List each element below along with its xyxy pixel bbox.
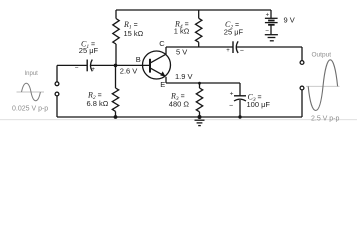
resistor R1 xyxy=(113,10,119,65)
wire collector rail xyxy=(166,46,233,48)
battery B1 9V xyxy=(270,10,272,18)
svg-text:9 V: 9 V xyxy=(284,16,295,25)
svg-text:100 μF: 100 μF xyxy=(247,100,271,109)
svg-text:C: C xyxy=(159,39,165,48)
svg-text:1 kΩ: 1 kΩ xyxy=(174,27,190,36)
svg-text:15 kΩ: 15 kΩ xyxy=(124,29,144,38)
svg-text:E: E xyxy=(160,80,165,89)
capacitor C3 xyxy=(239,83,241,96)
wire input bottom to rail xyxy=(56,96,58,117)
svg-text:25 μF: 25 μF xyxy=(224,27,244,36)
resistor R2 xyxy=(112,65,118,117)
wire emitter rail xyxy=(166,82,240,84)
capacitor C2 xyxy=(233,41,238,53)
node C3 ground dot xyxy=(238,115,241,118)
node R2 ground dot xyxy=(114,115,118,119)
svg-text:−: − xyxy=(240,48,244,55)
faint page rule xyxy=(0,119,357,121)
input sine wave xyxy=(22,83,41,100)
svg-text:2.5 V p-p: 2.5 V p-p xyxy=(311,116,340,123)
output sine axis xyxy=(306,85,340,87)
wire top rail xyxy=(116,9,271,11)
svg-text:−: − xyxy=(75,64,79,71)
svg-text:+: + xyxy=(91,67,95,73)
node R3 ground dot xyxy=(198,115,202,119)
svg-text:Output: Output xyxy=(312,52,332,59)
svg-text:+: + xyxy=(266,13,270,19)
ground symbol under R3 xyxy=(195,120,205,125)
svg-text:+: + xyxy=(230,90,234,97)
svg-text:6.8 kΩ: 6.8 kΩ xyxy=(87,99,109,108)
svg-text:0.025 V p-p: 0.025 V p-p xyxy=(12,106,48,113)
svg-text:+: + xyxy=(226,48,230,54)
resistor R4 xyxy=(196,10,202,47)
svg-text:B: B xyxy=(136,55,141,64)
svg-text:5 V: 5 V xyxy=(176,48,187,57)
transistor Q1 xyxy=(143,47,171,83)
wire to output terminal xyxy=(301,47,303,61)
svg-text:Input: Input xyxy=(25,71,39,77)
svg-text:−: − xyxy=(265,28,269,35)
node emitter R3 junction dot xyxy=(198,82,201,85)
svg-text:1.9 V: 1.9 V xyxy=(175,72,193,81)
resistor R3 xyxy=(196,83,202,117)
output sine wave xyxy=(308,60,337,111)
svg-text:25 μF: 25 μF xyxy=(79,46,99,55)
wire input to base xyxy=(57,64,87,66)
input terminal bottom xyxy=(55,92,59,96)
svg-text:2.6 V: 2.6 V xyxy=(120,67,138,76)
input sine axis xyxy=(17,91,45,93)
input terminal top xyxy=(55,82,59,86)
output terminal bottom xyxy=(300,86,304,90)
node base junction dot xyxy=(114,64,118,68)
wire output bottom to rail xyxy=(301,90,303,117)
capacitor C1 xyxy=(87,60,92,72)
output terminal top xyxy=(300,61,304,65)
svg-text:480 Ω: 480 Ω xyxy=(169,99,190,108)
ground under battery xyxy=(265,35,278,41)
svg-text:−: − xyxy=(229,103,233,110)
wire bottom rail xyxy=(57,116,302,118)
